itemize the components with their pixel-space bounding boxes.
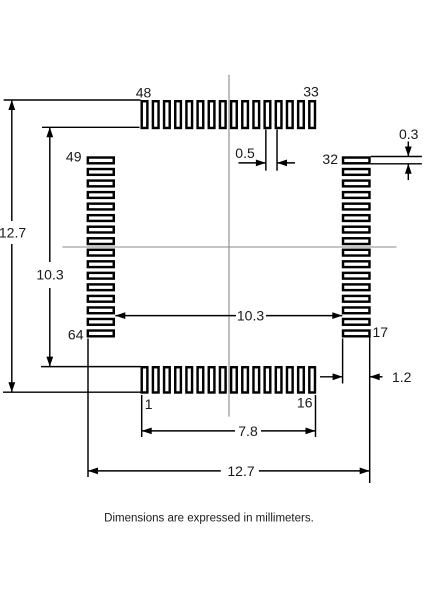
svg-text:1.2: 1.2 — [392, 369, 412, 385]
dim 12.7 vertical: dimension line with arrows — [11, 100, 13, 221]
dim 7.8: dimension line with arrows — [142, 430, 235, 432]
svg-text:10.3: 10.3 — [237, 308, 264, 324]
svg-text:1: 1 — [145, 396, 153, 412]
svg-text:16: 16 — [297, 395, 313, 411]
svg-text:0.3: 0.3 — [399, 126, 419, 142]
dim 10.3 vertical: dimension line with arrows — [49, 127, 51, 262]
dim 0.3 pad width: bottom extension line — [371, 163, 422, 165]
svg-text:49: 49 — [66, 149, 82, 165]
dim 12.7 vertical: bottom extension line — [3, 391, 141, 393]
dim 1.2 pad length: left extension line — [342, 339, 344, 384]
pad row top pins 48-33 — [142, 101, 315, 128]
dim 10.3 horizontal: dimension line with arrows — [115, 315, 236, 317]
pad row bottom pins 1-16 — [142, 367, 315, 392]
dim 0.3 pad width: upper arrow — [407, 142, 409, 157]
svg-text:0.5: 0.5 — [235, 145, 255, 161]
dim 0.5 pitch: left arrow line — [239, 162, 266, 164]
dim 0.3 pad width: lower arrow — [407, 164, 409, 180]
dim 1.2 pad length: left arrow line — [320, 376, 343, 378]
svg-text:64: 64 — [68, 327, 84, 343]
dim 0.5 pitch: right arrow line — [277, 162, 295, 164]
dim 0.5 pitch: extension line from pad 12 center — [265, 130, 267, 171]
pad column left pins 49-64 — [88, 158, 114, 337]
dim 7.8: left extension line — [141, 395, 143, 437]
svg-text:48: 48 — [136, 85, 152, 101]
dim 12.7 horizontal: dimension line with arrows — [88, 470, 221, 472]
svg-text:12.7: 12.7 — [227, 463, 254, 479]
centerline vertical — [228, 75, 230, 417]
svg-text:10.3: 10.3 — [36, 267, 63, 283]
svg-text:33: 33 — [303, 84, 319, 100]
svg-text:Dimensions are expressed in mi: Dimensions are expressed in millimeters. — [104, 513, 314, 525]
dim 0.3 pad width: top extension line — [371, 156, 422, 158]
dim 1.2 pad length: right extension line (shared with 12.7) — [369, 338, 371, 484]
svg-text:12.7: 12.7 — [0, 224, 26, 240]
dim 12.7 vertical: top extension line — [4, 99, 141, 101]
svg-text:7.8: 7.8 — [238, 423, 258, 439]
dim 1.2 pad length: right arrow line — [370, 376, 383, 378]
pad column right pins 32-17 — [343, 158, 369, 337]
centerline horizontal — [62, 246, 396, 248]
dim 12.7 horizontal: left extension line — [87, 339, 89, 478]
svg-text:17: 17 — [373, 324, 389, 340]
dim 10.3 vertical: top extension line — [42, 126, 140, 128]
dim 10.3 vertical: bottom extension line — [41, 366, 141, 368]
dim 7.8: right extension line — [315, 395, 317, 437]
dim 0.5 pitch: extension line from pad 13 center — [276, 130, 278, 171]
svg-text:32: 32 — [322, 151, 338, 167]
